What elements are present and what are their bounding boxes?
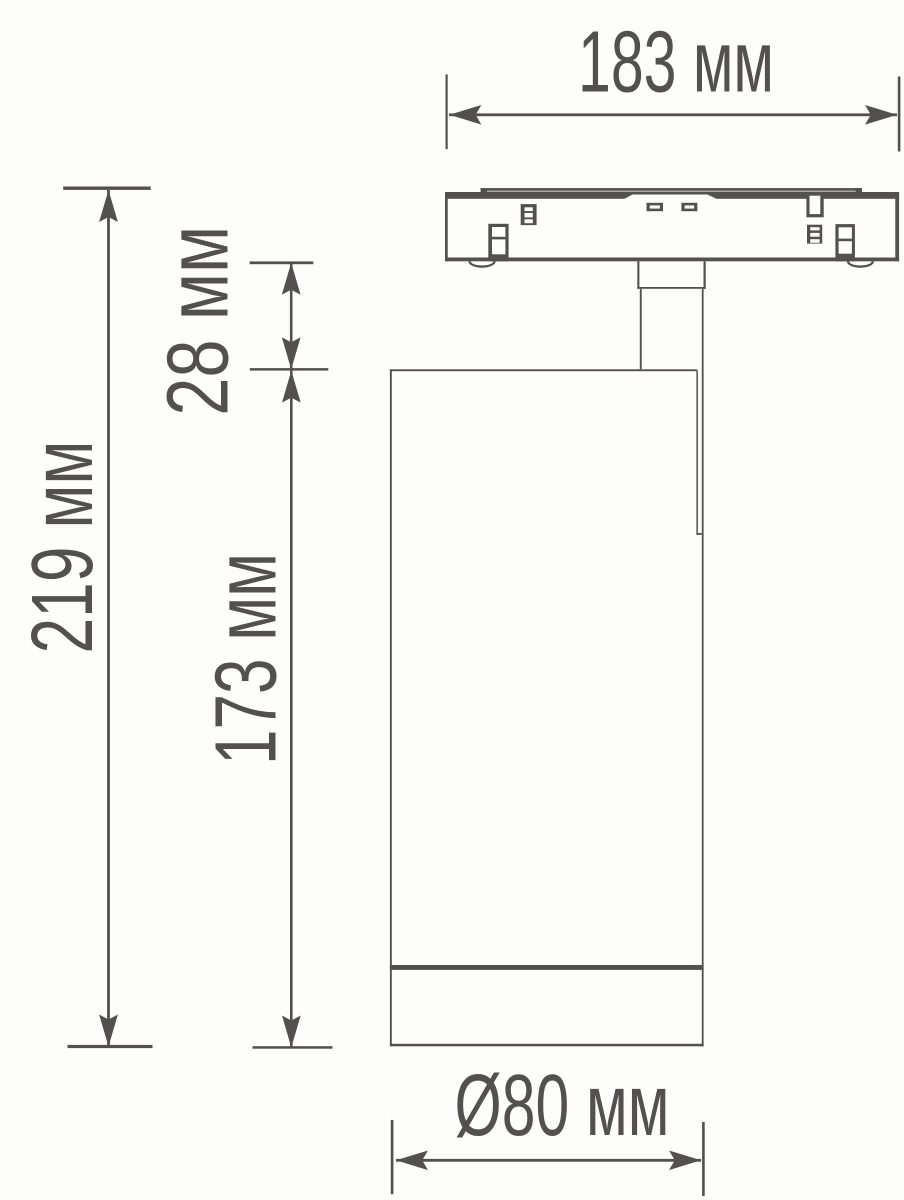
lamp body left edge: [390, 369, 392, 1046]
left clamp: [488, 224, 508, 261]
centre slot B: [681, 203, 697, 211]
svg-text:183 мм: 183 мм: [578, 13, 774, 111]
dim 28: bottom arrow: [282, 337, 301, 369]
lamp body right edge: [702, 289, 704, 1047]
dim 173: bottom arrow: [282, 1016, 301, 1048]
dim 80: dimension line: [396, 1159, 701, 1162]
dim 183: right arrow: [865, 105, 897, 125]
dim 28: top arrow: [282, 263, 301, 295]
dim 183: dimension line: [449, 113, 897, 116]
dim 219: dimension line: [107, 190, 110, 1047]
adapter top bar: [445, 192, 899, 199]
track line: [481, 188, 862, 191]
track/bar gap shading: [487, 191, 856, 193]
left roller arc: [468, 261, 495, 267]
dim 219: bottom arrow: [99, 1015, 118, 1047]
stem lower left edge: [640, 289, 642, 370]
dim 183: left extension line: [446, 74, 448, 149]
stem collar line: [637, 287, 705, 289]
dim 183: left arrow: [449, 105, 481, 125]
lamp bottom line: [390, 1044, 704, 1047]
svg-text:173 мм: 173 мм: [197, 553, 295, 765]
adapter left edge: [445, 192, 448, 261]
svg-text:Ø80 мм: Ø80 мм: [455, 1056, 670, 1154]
adapter bottom bar: [445, 258, 899, 262]
lamp rear strip inner line: [696, 371, 698, 535]
dim 80: right arrow: [669, 1151, 701, 1171]
left vent grille: [521, 204, 537, 225]
stem upper left edge: [637, 261, 639, 289]
dim 173: bottom tick: [253, 1046, 333, 1049]
lamp rear strip bottom tick: [696, 533, 701, 535]
right clamp: [835, 224, 855, 261]
svg-text:219 мм: 219 мм: [13, 441, 111, 654]
right top slot: [806, 196, 823, 218]
dim 183: right extension line: [898, 77, 901, 152]
right vent grille: [807, 225, 822, 244]
lamp body top line: [390, 369, 698, 371]
dim 28: dimension line: [290, 263, 293, 370]
centre slot A: [647, 203, 664, 211]
dim 80: right extension line: [702, 1122, 705, 1196]
track line right bump: [856, 188, 862, 192]
lamp trim thick line: [390, 965, 704, 970]
dim 219: bottom tick: [68, 1045, 153, 1048]
dim 173: dimension line: [290, 369, 293, 1047]
dim 80: left arrow: [396, 1151, 428, 1171]
dim 28: top tick: [250, 261, 314, 264]
track line left bump: [481, 188, 487, 192]
stem upper right edge: [704, 261, 706, 289]
adapter top bar centre notch: [624, 195, 718, 200]
svg-text:28 мм: 28 мм: [149, 226, 247, 416]
dim 28: bottom tick: [250, 368, 328, 371]
dim 80: left extension line: [391, 1120, 394, 1194]
dim 219: top tick: [63, 187, 151, 190]
dim 219: top arrow: [99, 190, 118, 222]
right roller arc: [847, 261, 874, 267]
dim 173: top arrow: [282, 371, 301, 403]
adapter right edge: [895, 192, 899, 261]
